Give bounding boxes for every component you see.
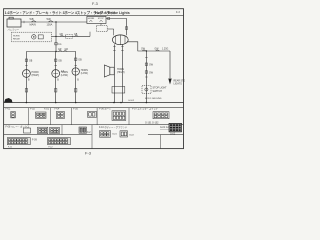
svg-text:G-101 G-102: G-101 G-102 (145, 123, 159, 125)
relay coil circle (32, 35, 36, 39)
stop branch junction (146, 50, 147, 51)
svg-text:HORN: HORN (13, 35, 20, 37)
svg-text:LIGHTS: LIGHTS (174, 84, 183, 86)
svg-text:1.25G: 1.25G (162, 49, 168, 51)
svg-text:F-04: F-04 (55, 109, 60, 111)
relay bottom lead left (113, 44, 115, 102)
svg-text:(LOW): (LOW) (81, 72, 88, 75)
connector c6 (153, 112, 169, 119)
svg-text:F-3: F-3 (176, 11, 180, 14)
svg-text:W​B: W​B (30, 18, 34, 21)
svg-text:G​B: G​B (60, 34, 64, 36)
horn HI (23, 70, 31, 78)
relay bottom lead right (121, 44, 123, 102)
svg-text:STOP: STOP (98, 18, 104, 20)
row2 connector b (38, 127, 48, 133)
svg-text:REAR STOP: REAR STOP (174, 80, 186, 83)
row3 connector long 2 (48, 138, 71, 145)
dark grid connector (169, 123, 182, 132)
off page arrow (168, 79, 171, 85)
svg-text:Horn & Brake Lights: Horn & Brake Lights (95, 11, 130, 15)
speaker horn (110, 67, 114, 75)
horn relay U1 (112, 35, 128, 45)
svg-text:F-09: F-09 (32, 140, 37, 142)
svg-text:G​B: G​B (78, 59, 82, 61)
stop branch vertical (145, 51, 147, 103)
fuse 10A (89, 20, 92, 23)
dashed contact box (66, 34, 73, 38)
connector c2 (36, 112, 47, 118)
branch y36 (56, 35, 90, 37)
ground bus (4, 102, 184, 104)
title separator (4, 15, 184, 17)
vertical to horn 3 (75, 52, 77, 103)
connector sym (145, 63, 147, 65)
branch y51 (26, 51, 75, 53)
fuse box (87, 16, 106, 23)
vertical to horn HI (25, 52, 27, 103)
svg-text:F-3: F-3 (92, 2, 98, 6)
relay right branch wire (127, 42, 170, 51)
svg-text:G​B: G​B (74, 34, 78, 36)
svg-text:MAIN: MAIN (30, 24, 36, 27)
vertical to horn LO (55, 52, 57, 103)
connector on relay lead (125, 27, 127, 30)
dashed switch box (97, 26, 108, 32)
svg-text:X-01: X-01 (44, 109, 50, 111)
row3 connector long 1 (7, 138, 30, 145)
svg-text:(LOW): (LOW) (61, 74, 68, 77)
svg-text:G-102: G-102 (128, 100, 135, 102)
svg-text:(HIGH): (HIGH) (32, 74, 40, 77)
svg-text:W​R: W​R (47, 18, 51, 21)
svg-text:(HIGH): (HIGH) (117, 71, 125, 74)
svg-text:G-02: G-02 (129, 135, 135, 137)
fuse sym (59, 51, 63, 52)
ground symbol (4, 98, 12, 103)
connector on wire (108, 18, 110, 20)
fuse 15A (100, 20, 103, 23)
connector syms on verticals (25, 59, 27, 61)
stop light switch dashed box (142, 86, 151, 94)
connector c5 (112, 111, 126, 121)
svg-text:G​R: G​R (58, 49, 62, 51)
svg-text:SWITCH: SWITCH (153, 90, 163, 93)
tick (145, 76, 148, 78)
row2 connector c (50, 128, 60, 134)
outer frame (4, 9, 184, 149)
row2 connector d dark (79, 127, 87, 133)
connector sym (145, 71, 147, 73)
right section connector b (120, 131, 128, 137)
trunk x56 (55, 22, 57, 52)
tick (145, 57, 148, 59)
wire main bus (21, 21, 87, 23)
table top (4, 107, 184, 109)
fuse sym on branch 2 (156, 50, 160, 51)
tick marks on relay leads (113, 46, 116, 48)
fusible link FL1 (32, 21, 37, 22)
table verticals (28, 108, 160, 149)
right section connector a (100, 131, 111, 138)
wire dashed box to relay (107, 29, 114, 35)
svg-text:100A: 100A (47, 24, 53, 27)
connector c3 (56, 112, 64, 119)
row2 connector a (24, 128, 31, 133)
connector c1 (11, 112, 16, 118)
row1 cell labels (6, 107, 159, 111)
wire fusebox to relay (106, 19, 127, 36)
off page wire (169, 51, 171, 78)
table row line 3 right (148, 134, 184, 136)
horn relay dashed box (11, 32, 51, 42)
relay contact box (38, 35, 43, 39)
connector c4 (88, 112, 97, 118)
svg-text:G​B: G​B (58, 60, 62, 62)
fuse sym (64, 51, 68, 52)
svg-text:BODY GROUND: BODY GROUND (145, 98, 162, 100)
fusible link FL2 (49, 21, 54, 22)
svg-text:G-01: G-01 (112, 134, 118, 136)
connector box on relay leads (112, 87, 125, 94)
svg-text:F-3: F-3 (85, 151, 92, 156)
fuse sym (75, 35, 79, 36)
svg-text:G​B: G​B (29, 60, 33, 62)
connector sym trunk (55, 43, 57, 45)
svg-text:F-05: F-05 (73, 109, 78, 111)
fuse sym on branch (142, 50, 146, 51)
wire relay box out (52, 35, 57, 37)
ticks (25, 65, 28, 67)
svg-text:RELAY: RELAY (13, 37, 21, 40)
table row line 3 left (4, 134, 92, 136)
svg-text:F-02: F-02 (30, 109, 35, 111)
svg-text:1G: 1G (58, 44, 61, 46)
svg-text:HORN: HORN (88, 18, 95, 20)
wire fuse2 down (100, 24, 102, 26)
wire up to dashed box (89, 32, 91, 37)
connector syms lower verticals (25, 89, 27, 93)
junction dots (26, 102, 148, 104)
horn 3 (72, 68, 79, 75)
fuse sym (60, 35, 64, 36)
svg-text:F-01: F-01 (6, 109, 11, 111)
svg-text:G​R: G​R (65, 49, 69, 51)
battery B1 (7, 19, 21, 27)
svg-text:G-02: G-02 (170, 133, 176, 135)
table row line 2 (4, 124, 184, 126)
horn LO (52, 70, 60, 78)
